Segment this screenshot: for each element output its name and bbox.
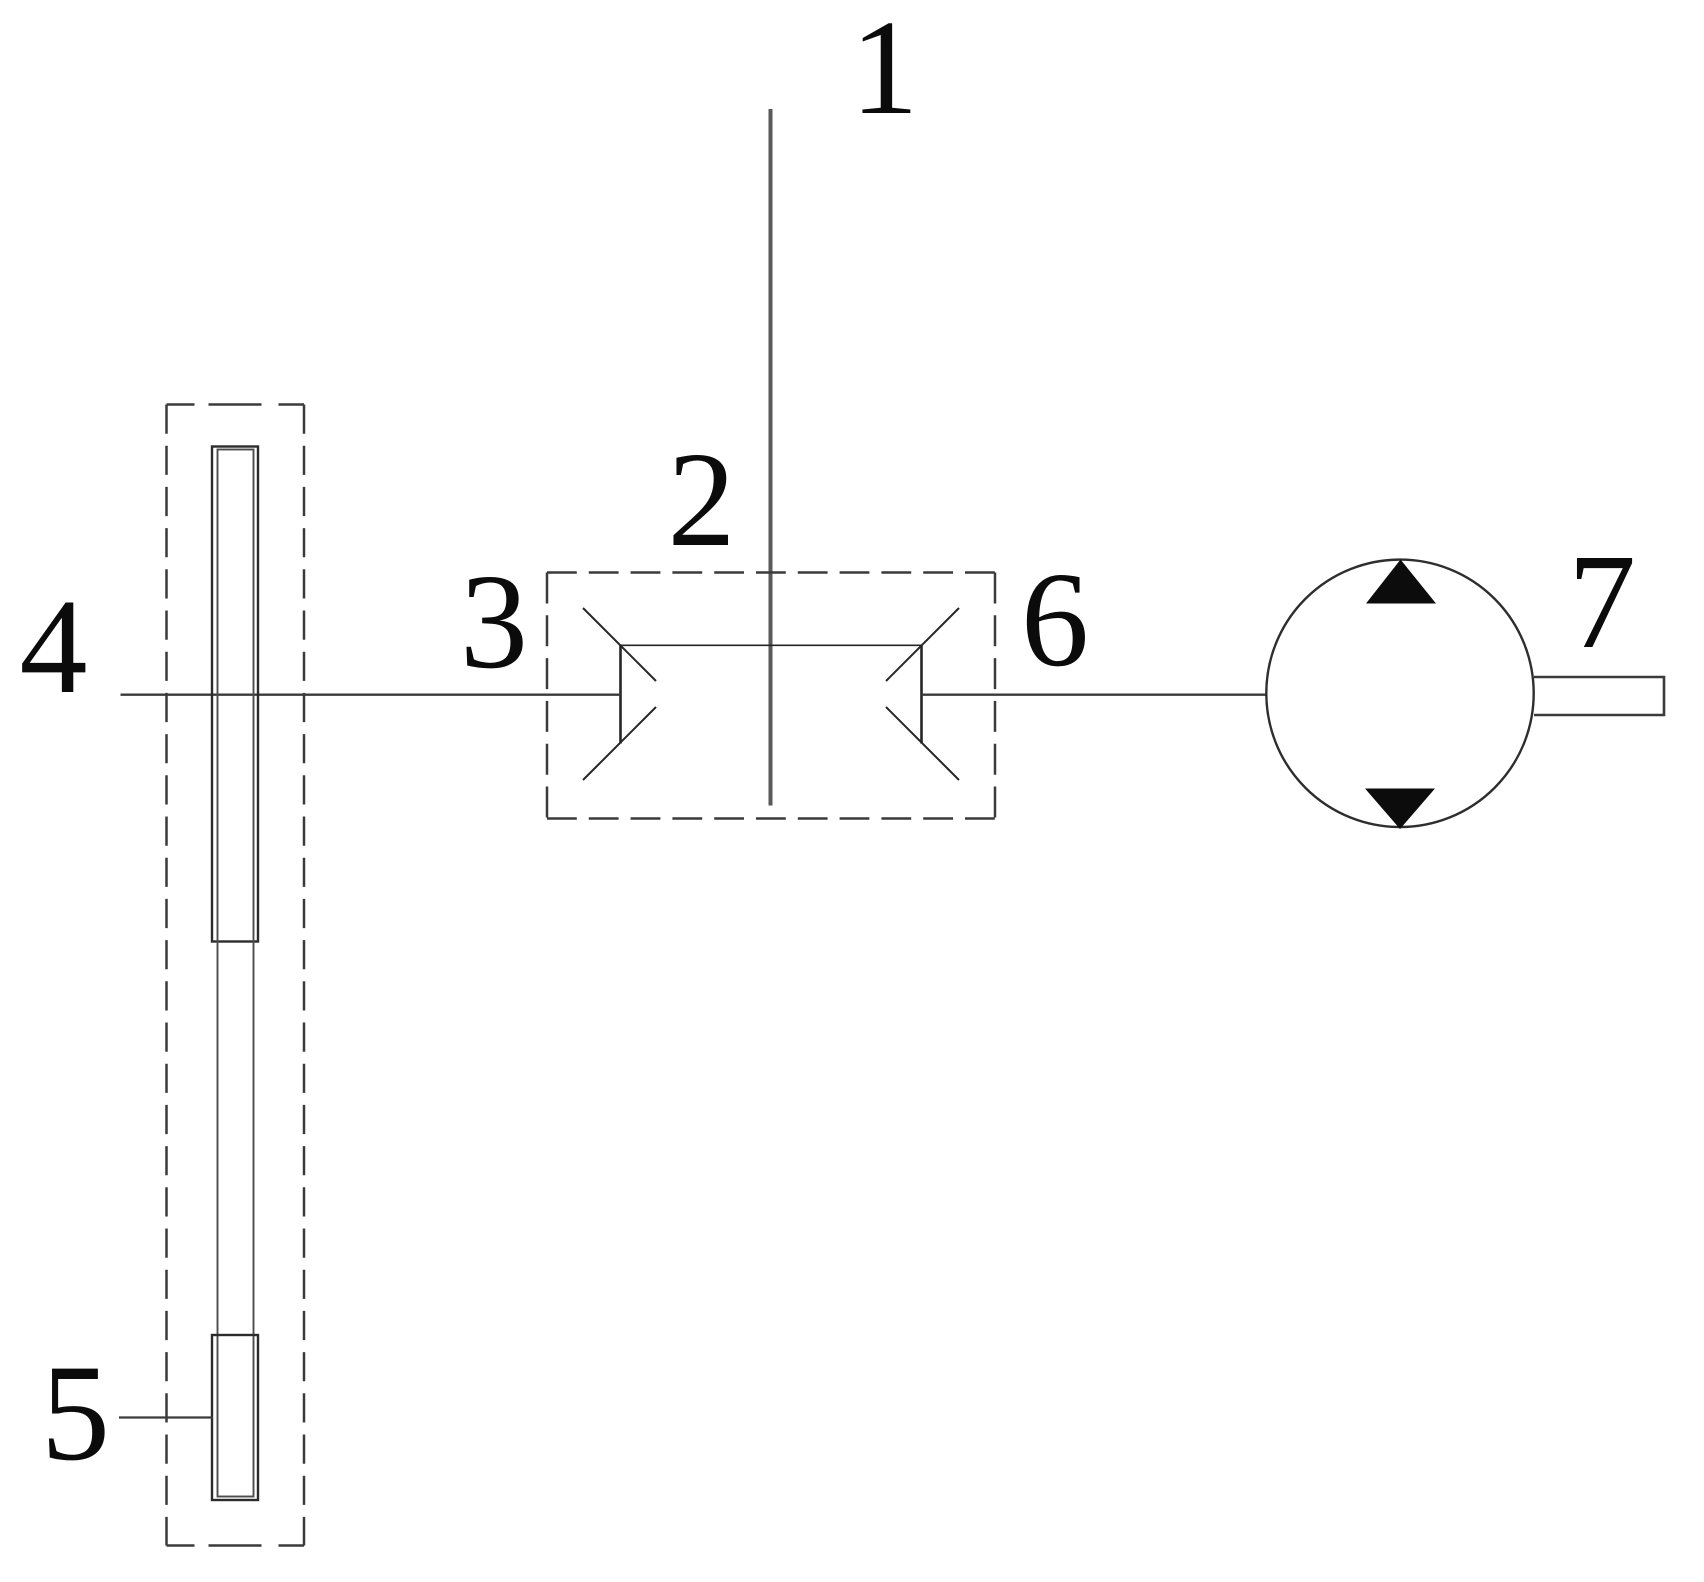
wire: right horizontal shaft to pump [922,694,1267,696]
upper sleeve rectangle [212,447,258,942]
svg-text:4: 4 [20,572,88,722]
pump upper triangle [1366,560,1436,604]
wire: vertical input shaft line 1 [769,109,773,806]
inner rod rectangle [218,450,254,1497]
svg-text:7: 7 [1568,527,1636,677]
svg-text:2: 2 [668,425,736,575]
bevel gear 3 (left) [583,608,922,780]
lower sleeve rectangle 5 [212,1335,258,1500]
pump lower triangle [1365,789,1435,830]
pump output shaft stub 7 [1534,677,1664,715]
svg-text:6: 6 [1021,545,1089,695]
svg-text:5: 5 [41,1336,110,1489]
wire: leader line from 5 to lower sleeve [119,1416,213,1418]
cylinder assembly dashed enclosure (around 4/5) [167,405,305,1546]
svg-text:1: 1 [851,0,919,143]
svg-text:3: 3 [460,547,528,697]
bevel gear 6 (right) [886,608,959,780]
pump/motor 7 circle [1266,560,1533,827]
gearbox 2 dashed enclosure [547,573,995,819]
wire: left horizontal shaft (4) [121,694,621,696]
